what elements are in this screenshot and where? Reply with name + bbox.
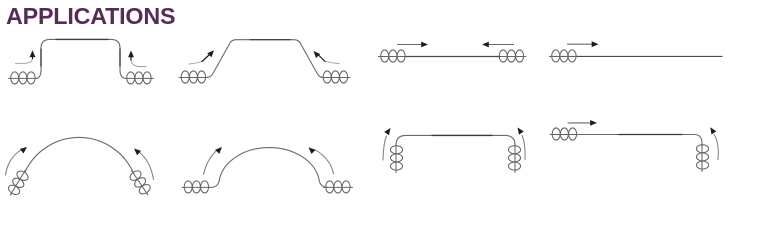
arrow D6 right	[315, 150, 334, 175]
coil D7 left vertical	[390, 144, 402, 173]
arrow D3 right	[489, 44, 514, 46]
coil D8 left	[550, 128, 579, 140]
wire D3 line	[406, 56, 500, 58]
coil right D2	[321, 71, 350, 83]
coil D8 vertical	[696, 143, 708, 172]
wire D8 path	[579, 135, 703, 147]
wire D8 dark overlay	[619, 134, 682, 136]
wire D1 path	[37, 39, 126, 78]
arrow D4	[568, 43, 593, 45]
arrow D2 right lead	[326, 62, 339, 64]
arrow D1 right	[130, 57, 132, 60]
arrow D3 left	[398, 44, 422, 46]
arrow D7 left	[383, 136, 387, 160]
wire D5 arc	[25, 137, 133, 172]
coil left D6	[182, 181, 211, 193]
coil left D3	[379, 50, 408, 62]
arrow D1 left lead	[16, 58, 33, 63]
wire D6 path	[211, 148, 328, 188]
arrow D2 left	[202, 55, 209, 62]
wire D2 path	[207, 40, 325, 78]
arrow D8 top	[568, 122, 591, 124]
arrow D5 right	[139, 152, 154, 180]
arrow D1 left	[32, 57, 34, 59]
arrow D5 left	[6, 150, 22, 176]
coil D7 right vertical	[508, 144, 520, 173]
coil right D6	[324, 181, 353, 193]
arrow D2 left lead	[189, 62, 202, 65]
wire D1 dark overlay top	[41, 39, 120, 66]
coil D5 left (tilted)	[6, 167, 31, 198]
coil left D2	[179, 71, 208, 83]
wire D7 path	[396, 135, 515, 147]
arrow D7 right	[522, 136, 525, 160]
title APPLICATIONS	[6, 3, 175, 30]
arrow D2 right	[319, 56, 325, 62]
arrow D1 right lead	[131, 59, 146, 67]
wire D2 dark overlay	[250, 39, 290, 41]
arrow D6 left	[204, 150, 218, 175]
coil D5 right (tilted)	[127, 167, 153, 198]
coil right D1	[125, 72, 154, 84]
coil right D3	[497, 50, 526, 62]
coil left D1	[9, 72, 38, 84]
coil D4	[550, 50, 579, 62]
wire D7 dark overlay	[432, 134, 492, 136]
wire D4 line	[578, 55, 723, 57]
arrow D8 right	[714, 135, 718, 160]
